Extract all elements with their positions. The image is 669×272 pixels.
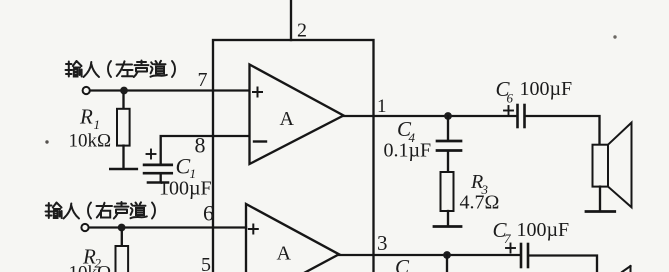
ground (R3) <box>434 225 461 228</box>
svg-text:2: 2 <box>297 20 307 42</box>
C6 label <box>496 77 514 106</box>
pin 8 wire <box>161 136 249 163</box>
IC box U1 <box>213 40 374 272</box>
svg-text:8: 8 <box>195 133 206 158</box>
resistor R2 <box>116 231 129 272</box>
svg-text:10kΩ: 10kΩ <box>69 131 112 152</box>
input terminal (left) <box>83 87 90 94</box>
wire C7 to speaker 2 <box>529 256 597 272</box>
svg-text:6: 6 <box>507 91 514 106</box>
C7 label <box>493 218 512 246</box>
speaker BL1 <box>593 123 632 210</box>
R1 label <box>79 105 100 133</box>
svg-text:6: 6 <box>203 201 214 226</box>
svg-text:C: C <box>176 154 191 179</box>
svg-text:C: C <box>395 255 410 272</box>
resistor R1 <box>117 94 130 168</box>
C4 label <box>397 117 416 145</box>
svg-text:1: 1 <box>377 96 387 117</box>
svg-text:3: 3 <box>377 231 388 255</box>
capacitor C6 <box>504 105 525 127</box>
pin 6 wire <box>89 226 246 228</box>
op-amp A1 <box>250 65 344 165</box>
capacitor C1 <box>144 150 172 183</box>
svg-text:4.7Ω: 4.7Ω <box>460 192 500 214</box>
op-amp A2 <box>246 204 339 272</box>
C1 label <box>176 154 197 182</box>
ground (C1) <box>148 181 168 184</box>
input terminal (right) <box>81 224 88 231</box>
pin 1 wire <box>344 115 518 117</box>
node: output 1 junction <box>444 112 452 120</box>
R3 label <box>470 171 489 197</box>
svg-text:A: A <box>277 243 292 265</box>
wire C6 to speaker 1 <box>526 116 600 145</box>
resistor R3 <box>441 172 454 225</box>
pin 2 wire <box>290 0 292 40</box>
label 输入（右声道） <box>46 202 156 219</box>
scan noise marks <box>45 35 616 143</box>
node: output 2 junction <box>443 251 451 259</box>
svg-text:7: 7 <box>198 69 208 91</box>
svg-text:100µF: 100µF <box>159 178 212 200</box>
svg-text:A: A <box>280 108 295 130</box>
ground (R1) <box>110 168 137 171</box>
label 输入（左声道） <box>66 61 176 78</box>
svg-text:10kΩ: 10kΩ <box>69 263 112 272</box>
R2 label <box>82 245 102 271</box>
svg-text:7: 7 <box>504 231 511 246</box>
svg-text:5: 5 <box>201 254 211 272</box>
capacitor C4 <box>437 116 461 172</box>
pin 3 wire <box>339 254 520 256</box>
speaker BL2 (clipped) <box>622 266 631 272</box>
capacitor C7 <box>506 244 528 268</box>
node: left input junction <box>120 87 128 95</box>
node: right input junction <box>118 224 126 232</box>
svg-text:100µF: 100µF <box>520 78 573 100</box>
svg-text:0.1µF: 0.1µF <box>384 140 432 162</box>
svg-text:100µF: 100µF <box>517 219 570 241</box>
pin 7 wire <box>90 89 249 91</box>
capacitor C5 (clipped) <box>446 255 448 272</box>
svg-text:R: R <box>79 105 93 129</box>
ground (speaker 1) <box>586 210 615 213</box>
